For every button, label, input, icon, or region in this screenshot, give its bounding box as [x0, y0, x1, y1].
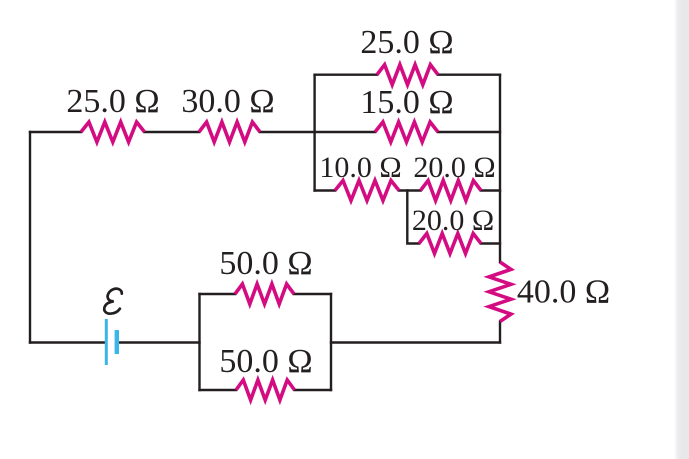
wire bottom right run	[331, 341, 500, 343]
wire top-left run	[30, 131, 315, 133]
wire branch to lower 20-ohm	[407, 191, 419, 244]
wire lower 20-ohm right stub	[481, 242, 500, 244]
resistor 10.0 ohm	[335, 181, 399, 201]
label EMF script-E	[104, 289, 122, 314]
svg-text:10.0 Ω: 10.0 Ω	[319, 151, 401, 184]
wire 50-ohm box top edge	[200, 293, 332, 295]
svg-text:25.0 Ω: 25.0 Ω	[66, 83, 159, 120]
wire 15-ohm rung	[315, 131, 500, 133]
resistor 50.0 ohm top	[235, 284, 294, 304]
resistor 20.0 ohm upper	[421, 181, 482, 201]
resistor 25.0 ohm top	[377, 65, 438, 85]
wire box left edge	[313, 75, 315, 191]
resistor 30.0 ohm	[199, 122, 260, 142]
wire 50-ohm box bottom edge	[200, 389, 332, 391]
svg-text:30.0 Ω: 30.0 Ω	[181, 83, 274, 120]
svg-text:50.0 Ω: 50.0 Ω	[219, 245, 312, 282]
wire 10/20-ohm rung	[315, 189, 500, 191]
resistor 40.0 ohm vertical	[489, 262, 511, 322]
svg-text:15.0 Ω: 15.0 Ω	[360, 84, 453, 121]
wire bottom left run	[30, 341, 200, 343]
resistor 15.0 ohm	[375, 122, 438, 142]
svg-text:50.0 Ω: 50.0 Ω	[219, 343, 312, 380]
wire right edge upper	[499, 75, 501, 262]
wire right edge lower	[499, 322, 501, 343]
battery EMF	[106, 319, 117, 365]
svg-text:25.0 Ω: 25.0 Ω	[360, 24, 453, 61]
svg-text:40.0 Ω: 40.0 Ω	[517, 274, 610, 311]
wire left edge	[29, 132, 31, 343]
resistor 50.0 ohm bottom	[236, 380, 295, 400]
wire 50-ohm box	[200, 294, 332, 390]
svg-text:20.0 Ω: 20.0 Ω	[413, 151, 495, 184]
resistor 25.0 ohm left	[81, 122, 145, 142]
wire top edge of parallel box	[315, 73, 500, 75]
svg-text:20.0 Ω: 20.0 Ω	[412, 204, 494, 237]
resistor 20.0 ohm lower	[419, 234, 481, 254]
